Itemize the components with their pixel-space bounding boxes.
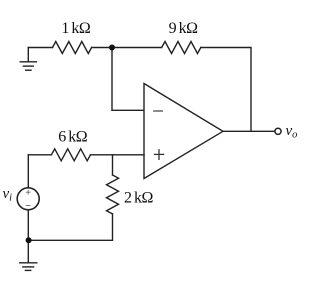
wire: tap down to R4 bbox=[112, 155, 114, 175]
ground (bottom) bbox=[20, 263, 37, 271]
junction node A dot bbox=[109, 45, 115, 51]
op-amp plus sign bbox=[155, 150, 164, 160]
wire: ground to R1 bbox=[28, 47, 52, 49]
resistor R1 1 kΩ zigzag bbox=[53, 42, 92, 54]
minus polarity mark of V1 bbox=[26, 205, 30, 207]
svg-text:vi: vi bbox=[3, 186, 13, 204]
svg-text:2 kΩ: 2 kΩ bbox=[124, 189, 154, 206]
output terminal circle vo bbox=[275, 128, 281, 134]
ground (top-left) bbox=[20, 48, 36, 71]
svg-text:vo: vo bbox=[286, 123, 298, 141]
svg-text:1 kΩ: 1 kΩ bbox=[61, 20, 91, 37]
wire: node A down to inverting input bbox=[111, 48, 113, 111]
wire: source bottom to ground node bbox=[27, 210, 29, 240]
wire: R3 to op-amp plus input bbox=[91, 154, 145, 156]
wire: R2 to feedback corner and down to output node bbox=[201, 48, 251, 132]
resistor R3 6 kΩ zigzag bbox=[51, 149, 90, 161]
wire: source column top (plus row down to source) bbox=[27, 155, 29, 188]
wire: ground node stub down bbox=[27, 240, 29, 262]
op-amp U1 triangle bbox=[144, 84, 223, 179]
resistor R2 9 kΩ zigzag bbox=[162, 42, 201, 54]
wire: output stub bbox=[223, 130, 275, 132]
wire: node A to R2 bbox=[112, 47, 162, 49]
wire: R4 bottom to ground rail bbox=[29, 214, 113, 240]
wire: inverting input stub bbox=[112, 109, 144, 111]
wire: noninverting input row from source column to op-amp bbox=[28, 154, 51, 156]
op-amp minus sign bbox=[154, 110, 163, 112]
resistor R4 2 kΩ vertical zigzag bbox=[107, 175, 119, 214]
svg-text:6 kΩ: 6 kΩ bbox=[58, 129, 87, 146]
svg-text:9 kΩ: 9 kΩ bbox=[169, 20, 199, 37]
plus polarity mark of V1 bbox=[26, 190, 30, 194]
wire: R1 to node A bbox=[92, 47, 112, 49]
voltage source V1 (vi) circle bbox=[17, 188, 39, 210]
junction dot at bottom ground node bbox=[26, 237, 32, 243]
